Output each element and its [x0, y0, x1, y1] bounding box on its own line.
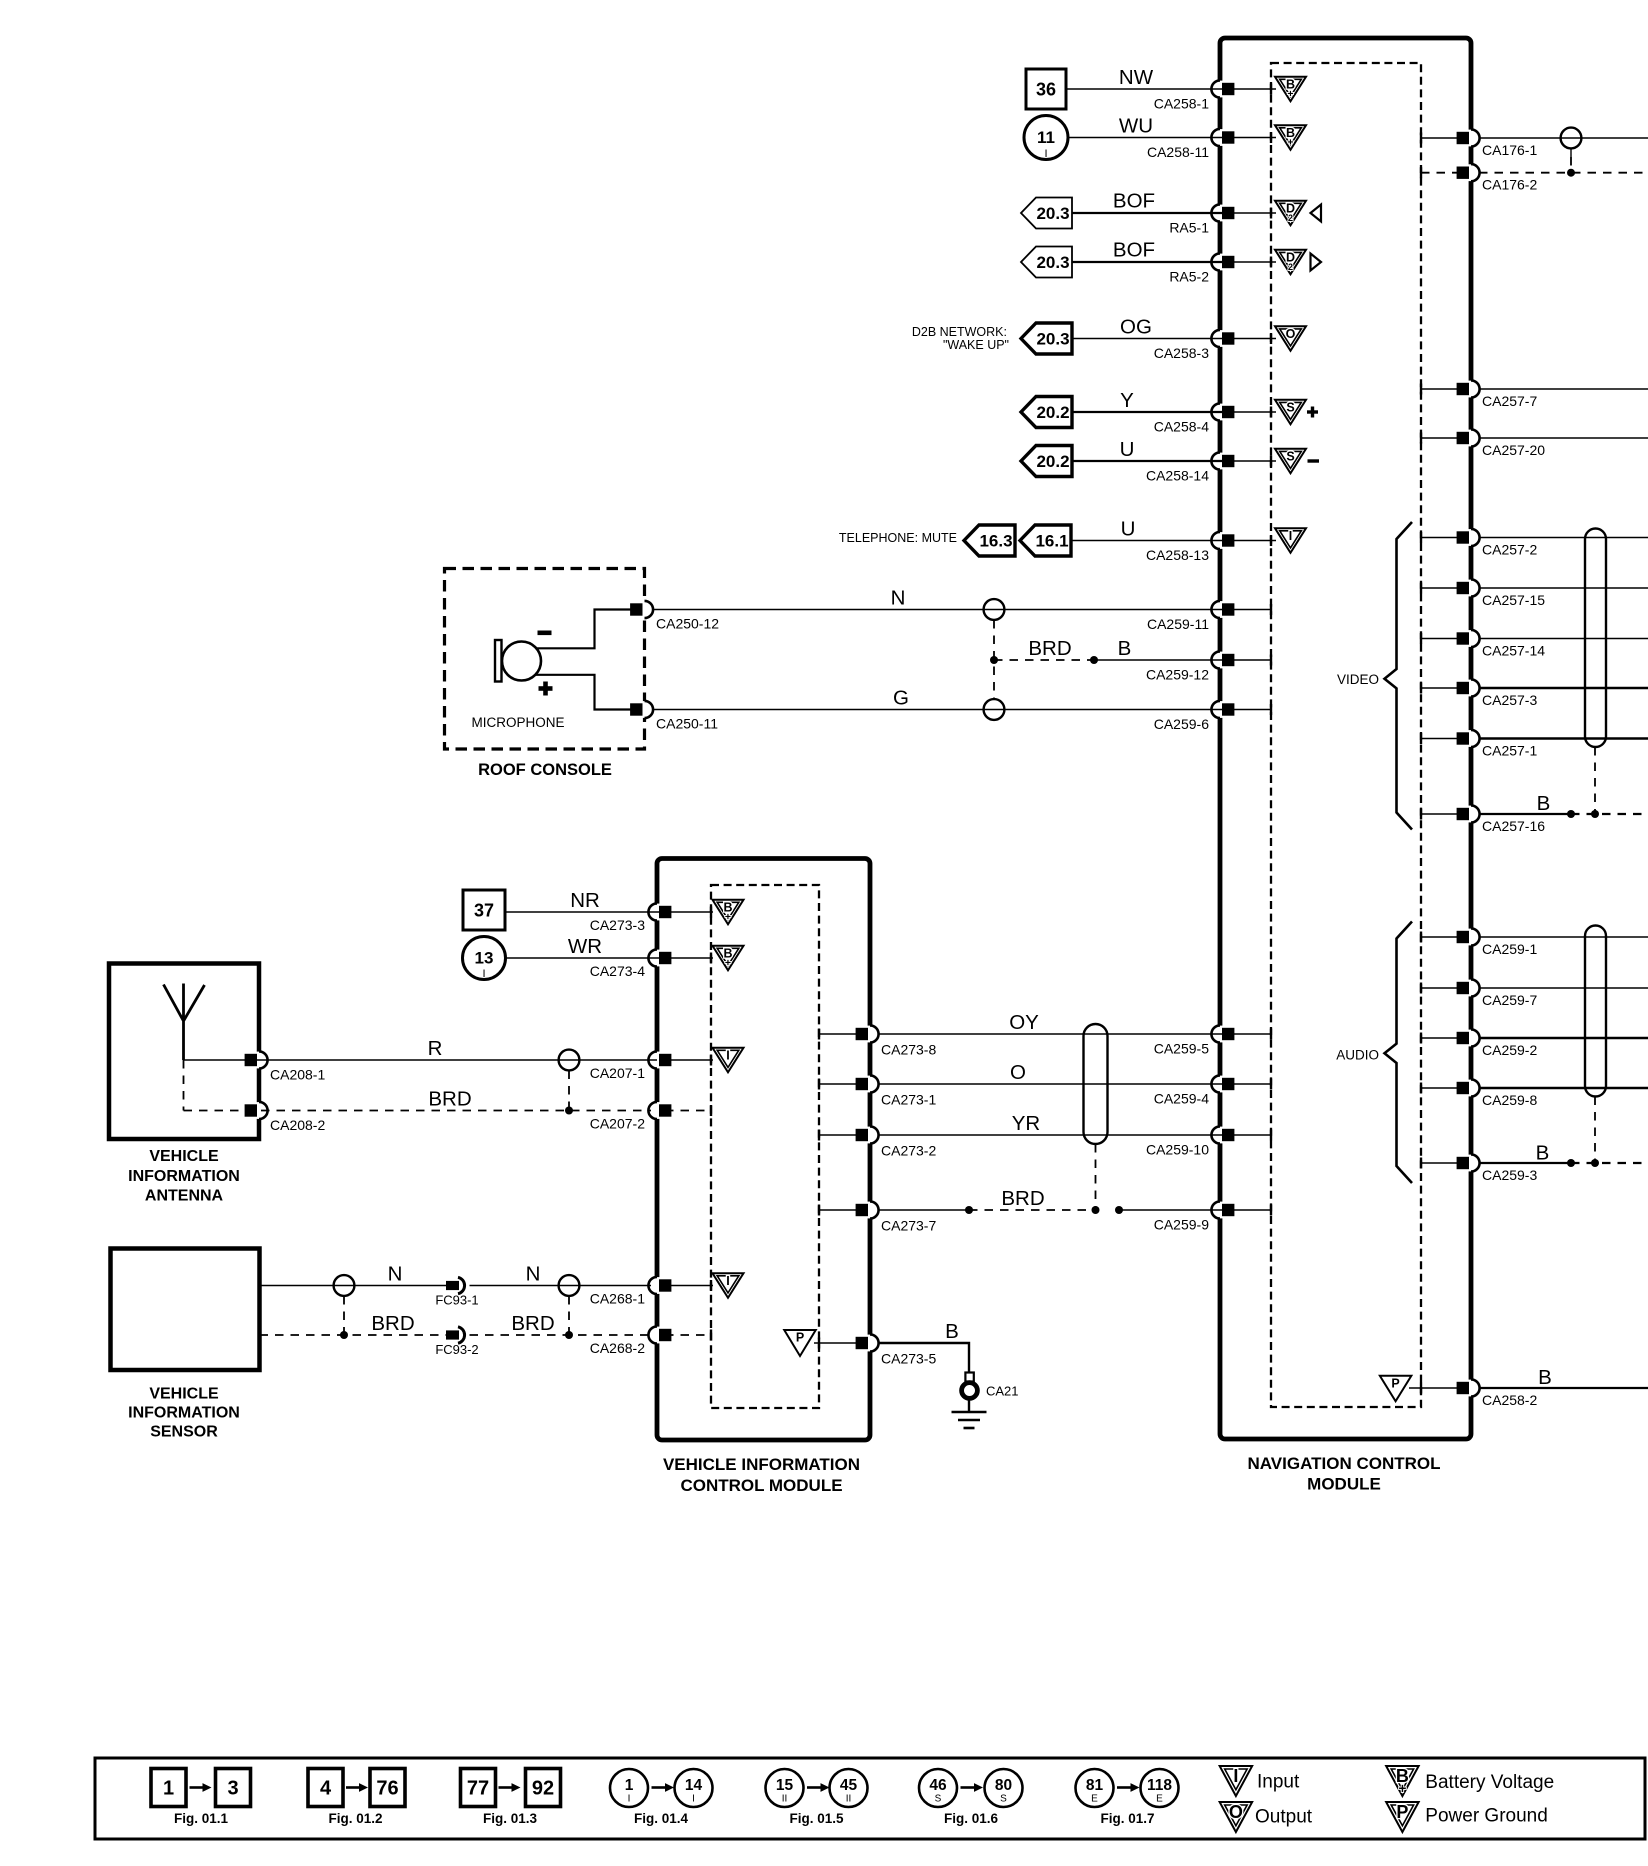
wire WU from connector 11 to CA258-11	[1068, 137, 1230, 139]
legend fig 01.2 box 76	[370, 1769, 405, 1807]
svg-text:BRD: BRD	[511, 1312, 554, 1335]
pin CA259-6 on NCM left edge	[1217, 701, 1224, 718]
svg-text:CA258-13: CA258-13	[1146, 547, 1209, 563]
tick at NCM inner box for CA257-1	[1420, 733, 1422, 744]
arrow pentagon 20.3 to RA5-2	[1021, 247, 1072, 278]
wire BRD FC93-2 to CA268-2 dashed	[470, 1334, 652, 1336]
junction dot B CA257-16	[1567, 810, 1575, 818]
arrow pentagon 16.1 to CA258-13	[1020, 525, 1071, 556]
legend fig 01.1 box 1	[151, 1769, 186, 1807]
pin CA257-1 on NCM right edge	[1468, 730, 1475, 747]
wire microphone plus lead	[534, 675, 640, 710]
junction dot sensor drain 2	[565, 1331, 573, 1339]
pin CA207-2 on VICM left edge	[654, 1102, 661, 1119]
pin CA259-10 on NCM left edge	[1217, 1127, 1224, 1144]
stub inside NCM for CA257-1	[1421, 738, 1463, 740]
pin CA268-2 on VICM left edge	[654, 1327, 661, 1344]
svg-text:Fig. 01.4: Fig. 01.4	[634, 1811, 689, 1826]
pin CA273-8 on VICM right edge	[867, 1026, 874, 1043]
tick at NCM inner box for CA257-15	[1420, 583, 1422, 594]
stub inside VICM for CA273-8	[819, 1033, 862, 1035]
shield oval mid-bay	[1084, 1024, 1108, 1144]
arrow pentagon 20.3 D2B network	[1021, 323, 1072, 354]
svg-text:S: S	[935, 1794, 942, 1805]
wire B CA259-3 solid	[1479, 1162, 1571, 1164]
speaker-left icon at RA5-1	[1311, 205, 1322, 222]
arrow pentagon 20.3 to RA5-1	[1021, 198, 1072, 229]
svg-text:CA257-14: CA257-14	[1482, 643, 1545, 659]
wire video row 5 to right edge	[1479, 737, 1648, 739]
svg-text:FC93-1: FC93-1	[435, 1293, 478, 1308]
splice FC93-2	[446, 1330, 459, 1339]
svg-text:46: 46	[929, 1777, 947, 1794]
wire video row 2 to right edge	[1479, 587, 1648, 589]
wire BRD dashed drain to B	[994, 659, 1094, 661]
pin CA273-2 on VICM right edge	[867, 1127, 874, 1144]
svg-text:I: I	[692, 1794, 695, 1805]
screen-minus symbol at CA258-14	[1275, 449, 1306, 474]
pin CA258-14 on NCM left edge	[1217, 453, 1224, 470]
pin CA258-1 on NCM left edge	[1217, 81, 1224, 98]
svg-text:CA257-20: CA257-20	[1482, 442, 1545, 458]
tick at VICM inner box for CA268-1	[710, 1280, 712, 1291]
wire video row 3 to right edge	[1479, 638, 1648, 640]
wire drain from circle to CA176-2	[1570, 149, 1572, 158]
svg-text:20.3: 20.3	[1036, 330, 1069, 349]
svg-text:P: P	[796, 1331, 804, 1345]
wire video row 4 to right edge	[1479, 687, 1648, 689]
tick at NCM inner box for CA258-13	[1270, 535, 1272, 546]
svg-text:CA273-3: CA273-3	[590, 917, 645, 933]
svg-text:D2B NETWORK:: D2B NETWORK:	[912, 325, 1007, 339]
svg-text:R: R	[428, 1037, 443, 1060]
junction dot BRD to B	[1090, 656, 1098, 664]
tick at NCM inner box for CA259-1	[1420, 932, 1422, 943]
arrow pentagon 20.2 to CA258-4	[1021, 397, 1072, 428]
tick at NCM inner box for RA5-2	[1270, 257, 1272, 268]
stub inside NCM for CA259-1	[1421, 936, 1463, 938]
wire sensor drain vertical dashed 1	[343, 1296, 345, 1335]
wire audio row 4 to right edge	[1479, 1087, 1648, 1089]
tick at NCM inner box for CA257-20	[1420, 433, 1422, 444]
pin CA258-4 on NCM left edge	[1217, 404, 1224, 421]
tick at VICM inner box for CA207-2	[710, 1105, 712, 1116]
pin CA258-13 on NCM left edge	[1217, 532, 1224, 549]
stub inside NCM for CA259-9	[1228, 1209, 1271, 1211]
wire N sensor to FC93-1	[260, 1285, 447, 1287]
battery voltage symbol at CA273-4	[713, 946, 744, 971]
svg-text:CA258-4: CA258-4	[1154, 419, 1209, 435]
stub inside NCM for CA257-20	[1421, 437, 1463, 439]
svg-text:CA258-14: CA258-14	[1146, 468, 1209, 484]
stub inside NCM for CA176-2 dashed	[1421, 172, 1463, 174]
svg-text:I: I	[628, 1794, 631, 1805]
vehicle information antenna box	[109, 964, 259, 1140]
wire BRD sensor to FC93-2 dashed	[260, 1334, 447, 1336]
inline connector circle on CA176-1 wire	[1561, 128, 1582, 149]
svg-text:+: +	[725, 911, 731, 923]
inline connector circle on N wire at mic	[984, 599, 1005, 620]
svg-text:CA259-7: CA259-7	[1482, 992, 1537, 1008]
stub inside NCM for CA259-7	[1421, 987, 1463, 989]
svg-text:G: G	[893, 687, 909, 710]
pin CA259-11 on NCM left edge	[1217, 601, 1224, 618]
pin CA257-14 on NCM right edge	[1468, 630, 1475, 647]
shield oval audio	[1585, 926, 1606, 1097]
stub inside NCM for CA258-1	[1228, 88, 1276, 90]
junction dot BRD left	[965, 1206, 973, 1214]
arrow pentagon 20.2 to CA258-14	[1021, 446, 1072, 477]
svg-text:1: 1	[163, 1778, 174, 1800]
svg-text:4: 4	[320, 1778, 332, 1800]
svg-text:MODULE: MODULE	[1307, 1475, 1381, 1494]
video group brace	[1385, 522, 1413, 830]
connector box 37	[463, 890, 505, 930]
svg-text:BRD: BRD	[1001, 1187, 1044, 1210]
pin CA257-2 on NCM right edge	[1468, 529, 1475, 546]
wire sensor drain vertical dashed 2	[568, 1296, 570, 1335]
stub inside NCM for CA258-2	[1409, 1387, 1463, 1389]
wire antenna drain vertical dashed	[568, 1071, 570, 1111]
stub inside NCM for CA258-4	[1228, 411, 1276, 413]
svg-text:16.3: 16.3	[979, 532, 1012, 551]
svg-text:CA259-1: CA259-1	[1482, 941, 1537, 957]
svg-text:20.2: 20.2	[1036, 452, 1069, 471]
power ground symbol in VICM	[784, 1330, 816, 1356]
shield oval video	[1585, 529, 1606, 748]
screen-plus symbol at CA258-4	[1275, 400, 1306, 425]
svg-text:CA259-3: CA259-3	[1482, 1167, 1537, 1183]
pin CA273-5 on VICM right edge	[867, 1335, 874, 1352]
vehicle information control module inner dashed box	[711, 885, 819, 1408]
microphone plus mark	[539, 686, 553, 691]
stub inside NCM for CA259-12	[1228, 659, 1271, 661]
tick at NCM inner box for CA176-2	[1420, 167, 1422, 178]
svg-text:YR: YR	[1012, 1112, 1040, 1135]
svg-text:VEHICLE: VEHICLE	[149, 1386, 219, 1403]
svg-text:CA259-5: CA259-5	[1154, 1041, 1209, 1057]
svg-text:81: 81	[1086, 1777, 1104, 1794]
svg-text:NR: NR	[570, 889, 600, 912]
svg-text:Fig. 01.3: Fig. 01.3	[483, 1811, 538, 1826]
pin CA208-2 on antenna box	[256, 1102, 263, 1119]
svg-text:2: 2	[1288, 262, 1293, 272]
pin CA258-3 on NCM left edge	[1217, 330, 1224, 347]
svg-text:B: B	[1538, 1366, 1552, 1389]
wire video shield drain dashed	[1594, 747, 1596, 814]
wire O CA273-1 to CA259-4	[878, 1083, 1230, 1085]
tick at NCM inner box for CA176-1	[1420, 133, 1422, 144]
tick at NCM inner box for CA257-3	[1420, 683, 1422, 694]
svg-text:N: N	[891, 587, 906, 610]
svg-text:CA259-10: CA259-10	[1146, 1142, 1209, 1158]
svg-text:3: 3	[227, 1778, 238, 1800]
svg-text:2: 2	[1288, 213, 1293, 223]
wire OY CA273-8 to CA259-5	[878, 1033, 1230, 1035]
wire audio shield drain dashed	[1594, 1097, 1596, 1164]
tick at NCM inner box for CA259-10	[1270, 1130, 1272, 1141]
junction dot sensor drain 1	[340, 1331, 348, 1339]
svg-text:Input: Input	[1257, 1772, 1300, 1793]
svg-text:CA258-11: CA258-11	[1147, 144, 1209, 160]
svg-text:WR: WR	[568, 935, 602, 958]
inline connector circle on R wire	[559, 1050, 580, 1071]
pin CA259-4 on NCM left edge	[1217, 1076, 1224, 1093]
svg-text:16.1: 16.1	[1035, 532, 1068, 551]
pin CA257-3 on NCM right edge	[1468, 680, 1475, 697]
svg-text:WU: WU	[1119, 115, 1153, 138]
legend fig 01.2 box 4	[308, 1769, 343, 1807]
svg-text:CA207-2: CA207-2	[590, 1116, 645, 1132]
microphone circle	[502, 642, 541, 681]
stub inside NCM for CA259-2	[1421, 1037, 1463, 1039]
svg-text:20.2: 20.2	[1036, 403, 1069, 422]
pin CA273-7 on VICM right edge	[867, 1202, 874, 1219]
svg-text:AUDIO: AUDIO	[1336, 1048, 1379, 1063]
stub inside NCM for CA259-8	[1421, 1087, 1463, 1089]
junction dot video shield drain	[1591, 810, 1599, 818]
pin CA273-3 on VICM left edge	[654, 904, 661, 921]
legend fig 01.4 arrow	[652, 1786, 668, 1789]
svg-text:INFORMATION: INFORMATION	[128, 1168, 240, 1185]
svg-text:92: 92	[532, 1778, 554, 1800]
svg-text:Battery Voltage: Battery Voltage	[1425, 1772, 1554, 1793]
svg-text:E: E	[1156, 1794, 1163, 1805]
svg-text:76: 76	[376, 1778, 398, 1800]
vehicle information sensor box	[111, 1249, 260, 1371]
stub inside NCM for RA5-1	[1228, 212, 1276, 214]
pin CA176-2 on NCM right edge	[1468, 164, 1475, 181]
output D2 symbol at RA5-1	[1275, 201, 1306, 226]
output D2 symbol at RA5-2	[1275, 250, 1306, 275]
wire YR CA273-2 to CA259-10	[878, 1134, 1230, 1136]
tick at NCM inner box for CA259-6	[1270, 704, 1272, 715]
connector circle 13	[463, 937, 506, 980]
ground symbol	[968, 1398, 970, 1412]
wire U to CA258-13	[1072, 540, 1230, 542]
pin CA259-5 on NCM left edge	[1217, 1026, 1224, 1043]
wire shield drain dashed mid-bay	[1095, 1144, 1097, 1210]
tick at NCM inner box for CA259-9	[1270, 1205, 1272, 1216]
legend fig 01.6 arrow	[961, 1786, 977, 1789]
legend fig 01.4 circle 14	[675, 1769, 713, 1807]
legend fig 01.7 circle 118	[1141, 1769, 1179, 1807]
svg-text:BRD: BRD	[371, 1312, 414, 1335]
svg-text:P: P	[1396, 1802, 1408, 1822]
svg-text:BRD: BRD	[428, 1088, 471, 1111]
svg-text:VEHICLE: VEHICLE	[149, 1148, 219, 1165]
legend fig 01.4 circle 1	[610, 1769, 648, 1807]
microphone element	[495, 640, 502, 682]
svg-text:I: I	[726, 1048, 729, 1062]
pin RA5-1 on NCM left edge	[1217, 205, 1224, 222]
input symbol at CA258-13	[1275, 528, 1306, 553]
pin CA259-3 on NCM right edge	[1468, 1155, 1475, 1172]
svg-text:+: +	[1287, 136, 1293, 148]
svg-text:CA258-2: CA258-2	[1482, 1392, 1537, 1408]
tick at VICM inner box for CA273-8	[818, 1029, 820, 1040]
legend fig 01.3 box 77	[461, 1769, 496, 1807]
wire video row 1 to right edge	[1479, 537, 1648, 539]
svg-text:CA259-6: CA259-6	[1154, 716, 1209, 732]
svg-text:Fig. 01.5: Fig. 01.5	[789, 1811, 844, 1826]
stub inside NCM for CA259-6	[1228, 709, 1271, 711]
svg-text:Output: Output	[1255, 1807, 1313, 1828]
wire CA176-2 dashed to right edge	[1479, 172, 1648, 174]
svg-text:FC93-2: FC93-2	[435, 1342, 478, 1357]
svg-text:P: P	[1391, 1376, 1399, 1390]
wire R from antenna to CA207-1	[184, 1059, 658, 1061]
svg-text:VIDEO: VIDEO	[1337, 672, 1379, 687]
svg-text:CA176-2: CA176-2	[1482, 177, 1537, 193]
inline connector circle on sensor N wire 1	[334, 1275, 355, 1296]
tick at NCM inner box for CA259-5	[1270, 1029, 1272, 1040]
stub inside VICM for CA273-1	[819, 1083, 862, 1085]
svg-text:BOF: BOF	[1113, 239, 1155, 262]
svg-text:II: II	[846, 1794, 852, 1805]
tick at VICM inner box for CA273-7	[818, 1205, 820, 1216]
svg-text:U: U	[1121, 518, 1136, 541]
tick at NCM inner box for CA257-14	[1420, 633, 1422, 644]
svg-text:14: 14	[685, 1777, 703, 1794]
wire BRD dashed mid-bay	[969, 1209, 1094, 1211]
svg-text:1: 1	[625, 1777, 634, 1794]
wire audio row 1 to right edge	[1479, 936, 1648, 938]
svg-text:37: 37	[474, 901, 494, 921]
svg-text:20.3: 20.3	[1036, 253, 1069, 272]
wire drain vertical dashed at mic splice	[993, 620, 995, 699]
pin CA259-9 on NCM left edge	[1217, 1202, 1224, 1219]
arrow pentagon 16.3 telephone mute	[964, 525, 1015, 556]
wire CA257-20 to right edge	[1479, 437, 1648, 439]
stub inside VICM for CA273-3	[665, 911, 713, 913]
svg-text:I: I	[1233, 1766, 1238, 1786]
svg-text:Fig. 01.6: Fig. 01.6	[944, 1811, 999, 1826]
legend box	[95, 1758, 1645, 1839]
svg-text:CA273-7: CA273-7	[881, 1218, 936, 1234]
svg-text:CA259-12: CA259-12	[1146, 667, 1209, 683]
wire CA257-7 to right edge	[1479, 388, 1648, 390]
svg-text:CA259-9: CA259-9	[1154, 1217, 1209, 1233]
antenna symbol	[164, 984, 205, 1061]
wire audio row 3 to right edge	[1479, 1037, 1648, 1039]
stub inside NCM for RA5-2	[1228, 261, 1276, 263]
tick at NCM inner box for CA259-7	[1420, 983, 1422, 994]
stub inside NCM for CA258-13	[1228, 540, 1276, 542]
stub inside NCM for CA259-11	[1228, 609, 1271, 611]
svg-text:20.3: 20.3	[1036, 204, 1069, 223]
tick at NCM inner box for CA259-2	[1420, 1033, 1422, 1044]
legend fig 01.3 arrow	[499, 1786, 514, 1789]
legend fig 01.6 circle 80	[985, 1769, 1023, 1807]
svg-text:Fig. 01.2: Fig. 01.2	[328, 1811, 382, 1826]
wire B CA257-16 solid	[1479, 813, 1571, 815]
wire B CA257-16 dashed to right edge	[1571, 813, 1648, 815]
svg-text:E: E	[1091, 1794, 1098, 1805]
output symbol at CA258-3	[1275, 326, 1306, 351]
svg-text:45: 45	[840, 1777, 858, 1794]
svg-text:CA257-1: CA257-1	[1482, 743, 1537, 759]
microphone minus mark	[538, 631, 552, 636]
vehicle information control module box	[657, 859, 870, 1441]
svg-text:BRD: BRD	[1028, 637, 1071, 660]
svg-text:S: S	[1286, 400, 1294, 414]
svg-text:I: I	[482, 968, 485, 980]
svg-text:S: S	[1000, 1794, 1007, 1805]
tick at VICM inner box for CA273-5	[818, 1338, 820, 1349]
stub inside VICM for CA273-5	[814, 1342, 862, 1344]
inline connector circle on sensor N wire 2	[559, 1275, 580, 1296]
wire BRD antenna screen dashed	[184, 1110, 652, 1112]
tick at VICM inner box for CA273-4	[710, 953, 712, 964]
svg-text:B: B	[1537, 792, 1551, 815]
stub inside NCM for CA257-15	[1421, 587, 1463, 589]
junction dot audio shield drain	[1591, 1159, 1599, 1167]
wire N from CA250-12 to CA259-11	[652, 609, 1230, 611]
tick at NCM inner box for CA259-12	[1270, 655, 1272, 666]
wire NR from connector 37 to CA273-3	[505, 911, 667, 913]
svg-text:VEHICLE INFORMATION: VEHICLE INFORMATION	[663, 1455, 860, 1474]
svg-text:SENSOR: SENSOR	[150, 1424, 218, 1441]
svg-text:I: I	[726, 1274, 729, 1288]
svg-text:CA273-2: CA273-2	[881, 1143, 936, 1159]
stub inside NCM for CA257-14	[1421, 638, 1463, 640]
svg-text:CA268-2: CA268-2	[590, 1340, 645, 1356]
stub inside VICM for CA207-1	[665, 1059, 713, 1061]
svg-text:II: II	[782, 1794, 788, 1805]
svg-text:CA259-11: CA259-11	[1147, 616, 1209, 632]
svg-text:CA273-5: CA273-5	[881, 1351, 936, 1367]
inline connector circle on G wire at mic	[984, 699, 1005, 720]
junction dot antenna drain	[565, 1107, 573, 1115]
svg-text:CA21: CA21	[986, 1384, 1019, 1399]
wire NW from connector 36 to CA258-1	[1066, 88, 1230, 90]
roof console dashed box	[445, 569, 645, 750]
stub inside NCM for CA259-4	[1228, 1083, 1271, 1085]
tick at NCM inner box for CA259-4	[1270, 1079, 1272, 1090]
svg-text:ROOF CONSOLE: ROOF CONSOLE	[478, 761, 612, 779]
svg-text:CA176-1: CA176-1	[1482, 142, 1537, 158]
battery voltage symbol at CA258-1	[1275, 77, 1306, 102]
svg-text:MICROPHONE: MICROPHONE	[471, 715, 564, 730]
tick at NCM inner box for CA258-1	[1270, 84, 1272, 95]
tick at NCM inner box for CA258-14	[1270, 456, 1272, 467]
stub inside NCM for CA258-14	[1228, 460, 1276, 462]
pin CA273-1 on VICM right edge	[867, 1076, 874, 1093]
stub inside NCM for CA257-3	[1421, 687, 1463, 689]
pin CA250-12 on roof console box	[641, 601, 648, 618]
stub inside NCM for CA257-2	[1421, 537, 1463, 539]
legend battery voltage symbol	[1386, 1766, 1419, 1796]
svg-text:RA5-2: RA5-2	[1169, 269, 1209, 285]
pin CA259-2 on NCM right edge	[1468, 1030, 1475, 1047]
stub inside VICM for CA273-2	[819, 1134, 862, 1136]
tick at VICM inner box for CA268-2	[710, 1330, 712, 1341]
svg-text:CA268-1: CA268-1	[590, 1291, 645, 1307]
tick at VICM inner box for CA273-2	[818, 1130, 820, 1141]
wire CA176-1 to right edge	[1479, 137, 1648, 139]
tick at NCM inner box for CA257-16	[1420, 809, 1422, 820]
input symbol at CA207-1	[713, 1048, 744, 1073]
wire microphone minus lead	[534, 610, 640, 649]
tick at NCM inner box for CA258-3	[1270, 333, 1272, 344]
svg-text:36: 36	[1036, 80, 1056, 100]
battery voltage symbol at CA273-3	[713, 900, 744, 925]
svg-text:CA257-16: CA257-16	[1482, 818, 1545, 834]
tick at NCM inner box for CA258-11	[1270, 132, 1272, 143]
svg-text:CA207-1: CA207-1	[590, 1065, 645, 1081]
stub inside NCM for CA257-16	[1421, 813, 1463, 815]
